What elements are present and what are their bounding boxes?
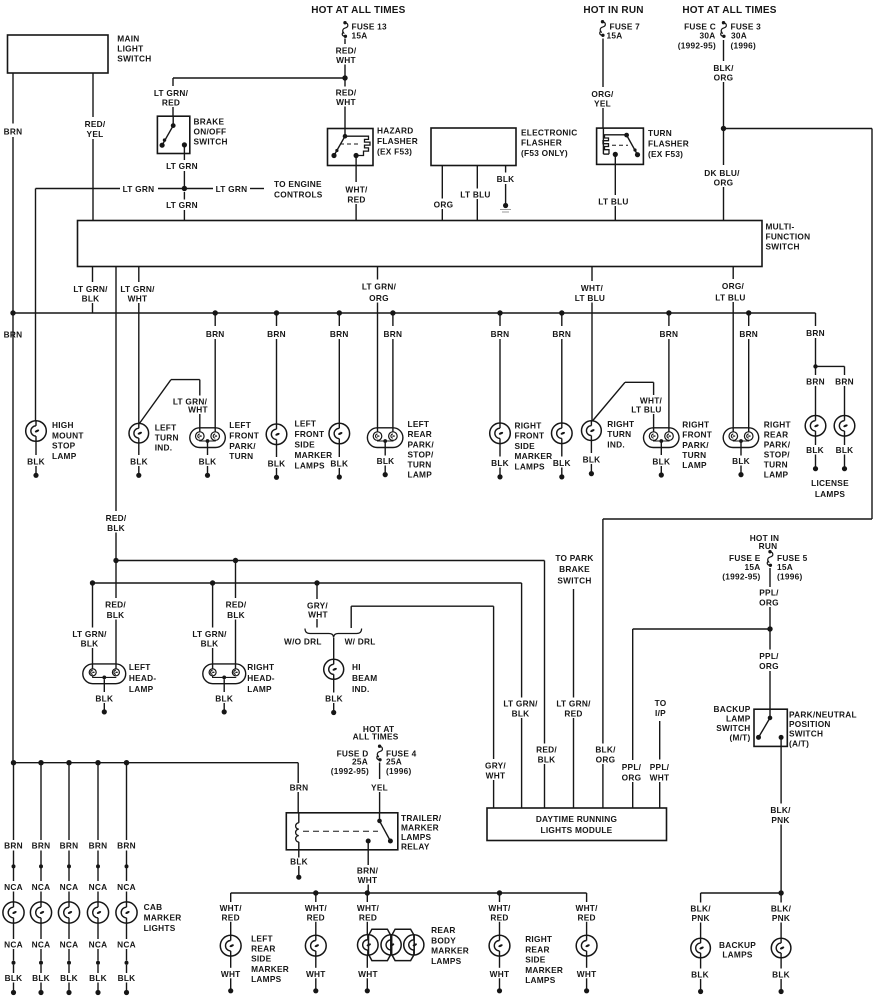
- svg-text:BRN: BRN: [89, 841, 108, 851]
- label rear body marker lamps: [431, 925, 469, 966]
- svg-text:LAMPS: LAMPS: [251, 974, 282, 984]
- daytime running lights module box: [487, 808, 667, 841]
- svg-text:15A: 15A: [777, 562, 793, 572]
- svg-text:BLK: BLK: [836, 445, 854, 455]
- svg-text:WHT/: WHT/: [305, 903, 328, 913]
- node BRN rail junction right front marker 2: [559, 310, 564, 315]
- connector splice cab marker lamp 4 bottom: [96, 961, 100, 965]
- wire BRN drop to left rear park/stop/turn lamp: [384, 313, 403, 432]
- turn flasher label: [648, 128, 689, 159]
- label TO ENGINE CONTROLS: [274, 179, 323, 200]
- svg-text:REAR: REAR: [431, 925, 456, 935]
- svg-text:LIGHT: LIGHT: [117, 44, 143, 54]
- node cab rail junction 3: [66, 760, 71, 765]
- ground left rear side marker lamp 1: [221, 956, 241, 993]
- svg-text:SIDE: SIDE: [515, 441, 536, 451]
- svg-text:15A: 15A: [352, 30, 368, 40]
- wire NCA cab marker lamp 5: [117, 868, 136, 902]
- svg-text:WHT/: WHT/: [345, 185, 368, 195]
- wire BRN drop cab marker lamp 1: [4, 763, 23, 865]
- cab marker lamp 3: [58, 902, 79, 923]
- wire NCA below cab marker lamp 1: [4, 923, 23, 961]
- svg-text:25A: 25A: [386, 757, 402, 767]
- label left headlamp: [129, 662, 157, 694]
- connector splice cab marker lamp 4 top: [96, 864, 100, 868]
- svg-text:WHT/: WHT/: [575, 903, 598, 913]
- wire BRN from main light switch: [4, 73, 23, 313]
- wire NCA cab marker lamp 3: [60, 868, 79, 902]
- svg-text:BRN: BRN: [4, 841, 23, 851]
- svg-text:CAB: CAB: [144, 902, 163, 912]
- svg-text:BLK/: BLK/: [713, 63, 734, 73]
- wire BRN drop to left front park/turn lamp: [206, 313, 225, 432]
- main light switch box: [8, 35, 109, 73]
- wire LT GRN to high mount stop lamp: [35, 189, 37, 421]
- svg-text:BLK: BLK: [199, 457, 217, 467]
- label left rear side marker lamps: [251, 933, 289, 984]
- connector splice cab marker lamp 2 top: [39, 864, 43, 868]
- svg-text:ON/OFF: ON/OFF: [194, 127, 227, 137]
- node BRN rail junction left front marker 2: [337, 310, 342, 315]
- wire LT GRN/WHT output: [119, 267, 156, 423]
- svg-text:25A: 25A: [352, 757, 368, 767]
- ground cab marker lamp 1: [5, 965, 23, 995]
- svg-text:BLK: BLK: [652, 457, 670, 467]
- svg-text:LT GRN/: LT GRN/: [362, 282, 397, 292]
- svg-text:15A: 15A: [607, 30, 623, 40]
- license lamp right: [834, 416, 855, 437]
- svg-text:LT BLU: LT BLU: [460, 190, 490, 200]
- svg-text:FRONT: FRONT: [515, 431, 545, 441]
- svg-text:WHT: WHT: [308, 610, 328, 620]
- svg-text:SWITCH: SWITCH: [557, 576, 591, 586]
- svg-text:BRN: BRN: [384, 329, 403, 339]
- svg-text:30A: 30A: [700, 30, 716, 40]
- right rear side marker lamp 1: [489, 935, 510, 956]
- ground backup left: [691, 958, 709, 994]
- wire BLK/PNK from switch: [770, 737, 792, 893]
- svg-text:ORG: ORG: [434, 200, 454, 210]
- electronic flasher box: [431, 128, 516, 166]
- svg-text:LAMP: LAMP: [247, 684, 272, 694]
- right front side marker lamp: [490, 423, 511, 444]
- svg-text:HIGH: HIGH: [52, 420, 74, 430]
- wire BRN drop cab marker lamp 4: [89, 763, 108, 865]
- svg-text:SWITCH: SWITCH: [789, 729, 823, 739]
- svg-text:BEAM: BEAM: [352, 673, 377, 683]
- svg-text:RED/: RED/: [226, 600, 247, 610]
- power source label HOT AT ALL TIMES (fuse C/3): [682, 5, 776, 16]
- svg-text:BLK: BLK: [107, 610, 125, 620]
- fuse F13 15A: [342, 21, 387, 40]
- svg-text:LAMP: LAMP: [682, 460, 707, 470]
- svg-text:WHT: WHT: [358, 969, 378, 979]
- wire NCA below cab marker lamp 4: [89, 923, 108, 961]
- svg-text:MOUNT: MOUNT: [52, 430, 84, 440]
- svg-text:RED/: RED/: [106, 513, 127, 523]
- cab marker lamp 2: [30, 902, 51, 923]
- svg-text:ORG/: ORG/: [591, 89, 614, 99]
- wire GRY/WHT to DRL module: [485, 606, 507, 808]
- svg-text:MARKER: MARKER: [431, 946, 469, 956]
- svg-text:MAIN: MAIN: [117, 34, 139, 44]
- brake switch label: [194, 117, 228, 147]
- wire BLK/ORG from fuse C: [713, 40, 735, 129]
- svg-text:LT BLU: LT BLU: [575, 293, 605, 303]
- svg-text:BRN: BRN: [330, 329, 349, 339]
- svg-text:BLK: BLK: [107, 523, 125, 533]
- svg-text:MULTI-: MULTI-: [766, 222, 795, 232]
- svg-text:LT GRN: LT GRN: [166, 161, 198, 171]
- svg-text:LAMP: LAMP: [764, 470, 789, 480]
- ground rear body markers: [358, 955, 378, 993]
- svg-text:BLK: BLK: [89, 973, 107, 983]
- svg-text:TO ENGINE: TO ENGINE: [274, 179, 322, 189]
- svg-text:BLK: BLK: [325, 694, 343, 704]
- fuse F7 15A: [600, 20, 640, 40]
- svg-text:SWITCH: SWITCH: [194, 137, 228, 147]
- svg-text:BRAKE: BRAKE: [559, 564, 590, 574]
- svg-text:BLK: BLK: [512, 709, 530, 719]
- svg-text:RUN: RUN: [759, 541, 778, 551]
- svg-text:MARKER: MARKER: [295, 450, 333, 460]
- connector splice cab marker lamp 3 bottom: [67, 961, 71, 965]
- svg-text:LT BLU: LT BLU: [598, 197, 628, 207]
- svg-text:PPL/: PPL/: [650, 762, 670, 772]
- svg-text:(1996): (1996): [731, 40, 756, 50]
- svg-text:BRN: BRN: [206, 329, 225, 339]
- fuse glyph D/4: [377, 745, 383, 762]
- wire WHT/LT BLU output: [574, 267, 606, 421]
- ground high mount stop lamp: [27, 441, 45, 478]
- svg-text:TURN: TURN: [682, 450, 706, 460]
- svg-text:BRN: BRN: [117, 841, 136, 851]
- svg-text:PARK/: PARK/: [764, 440, 791, 450]
- svg-text:(1996): (1996): [777, 572, 802, 582]
- wire BRN drop to right front side marker: [491, 313, 510, 423]
- label RED/BLK DRL input: [536, 745, 558, 809]
- trailer relay switch: [366, 813, 393, 844]
- svg-text:RED/: RED/: [105, 600, 126, 610]
- svg-text:LAMP: LAMP: [52, 451, 77, 461]
- label left turn ind: [155, 422, 179, 452]
- svg-text:REAR: REAR: [764, 430, 789, 440]
- svg-text:WHT/: WHT/: [581, 283, 604, 293]
- fuse FC 30A 1992-95 labels: [678, 22, 716, 51]
- power source label HOT IN RUN (fuse 7): [583, 5, 643, 16]
- svg-text:WHT/: WHT/: [488, 903, 511, 913]
- wire W/ DRL riser: [351, 606, 493, 628]
- svg-text:IND.: IND.: [607, 439, 625, 449]
- svg-text:BLK: BLK: [806, 445, 824, 455]
- fuse FD 25A 1992-95 labels: [331, 749, 369, 777]
- svg-text:HOT AT ALL TIMES: HOT AT ALL TIMES: [311, 5, 405, 16]
- label left rear lamp: [408, 419, 435, 479]
- right front marker lamp 2: [552, 423, 573, 444]
- node BRN rail junction right front side marker: [497, 310, 502, 315]
- wire BRN park lamp rail: [13, 312, 816, 314]
- wire LT GRN/BLK rail: [90, 580, 522, 697]
- wire PPL/ORG to DRL module: [621, 629, 771, 808]
- wire to hi beam indicator: [333, 638, 335, 659]
- svg-text:RIGHT: RIGHT: [515, 420, 542, 430]
- wire BLK/ORG down right side: [595, 519, 873, 808]
- svg-text:LT GRN/: LT GRN/: [120, 284, 155, 294]
- svg-text:PARK/NEUTRAL: PARK/NEUTRAL: [789, 709, 857, 719]
- svg-text:BLK: BLK: [772, 970, 790, 980]
- label LT GRN/BLK DRL input: [502, 699, 539, 809]
- wire PPL/ORG from fuse E: [758, 568, 780, 629]
- svg-text:REAR: REAR: [525, 944, 550, 954]
- svg-text:BLK: BLK: [691, 970, 709, 980]
- svg-text:(M/T): (M/T): [729, 733, 750, 743]
- svg-text:POSITION: POSITION: [789, 719, 831, 729]
- svg-text:HAZARD: HAZARD: [377, 126, 414, 136]
- wire LT GRN/BLK output: [72, 267, 109, 314]
- wire RED/BLK rail: [113, 558, 544, 744]
- wire BLK/ORG to right edge: [724, 128, 873, 130]
- connector splice cab marker lamp 1 bottom: [12, 961, 16, 965]
- svg-text:LIGHTS MODULE: LIGHTS MODULE: [541, 825, 613, 835]
- svg-text:BLK: BLK: [268, 459, 286, 469]
- node BRN rail junction right rear park/stop/turn lamp: [746, 310, 751, 315]
- svg-text:W/O DRL: W/O DRL: [284, 637, 322, 647]
- high mount stop lamp: [26, 421, 47, 442]
- svg-text:SIDE: SIDE: [525, 955, 546, 965]
- wire LT BLU from turn flasher: [598, 154, 630, 220]
- license lamp left: [805, 416, 826, 437]
- label left front side marker lamps: [295, 419, 333, 471]
- svg-text:BLK: BLK: [201, 639, 219, 649]
- svg-text:BRN: BRN: [4, 127, 23, 137]
- svg-text:HOT IN RUN: HOT IN RUN: [583, 5, 643, 16]
- right front park/turn lamp: [644, 428, 680, 448]
- wire RED/WHT from fuse 13: [335, 39, 357, 79]
- label backup lamps: [719, 940, 756, 960]
- svg-text:PPL/: PPL/: [759, 588, 779, 598]
- label park/neutral position switch: [789, 709, 857, 748]
- svg-text:BRN: BRN: [290, 783, 309, 793]
- svg-text:NCA: NCA: [32, 882, 51, 892]
- svg-text:BLK: BLK: [583, 455, 601, 465]
- svg-text:BRN: BRN: [32, 841, 51, 851]
- svg-text:BRN: BRN: [491, 329, 510, 339]
- svg-text:BLK: BLK: [538, 755, 556, 765]
- ground right rear side marker lamp 2: [577, 956, 597, 993]
- svg-text:BLK: BLK: [215, 694, 233, 704]
- cab marker lamp 4: [87, 902, 108, 923]
- svg-text:(EX F53): (EX F53): [377, 147, 412, 157]
- svg-text:LIGHTS: LIGHTS: [144, 923, 176, 933]
- svg-text:WHT: WHT: [486, 771, 506, 781]
- svg-text:LAMPS: LAMPS: [515, 462, 546, 472]
- wire RED/BLK output (headlamp feed): [105, 267, 127, 561]
- svg-text:LT GRN: LT GRN: [216, 184, 248, 194]
- svg-text:LAMPS: LAMPS: [722, 950, 753, 960]
- right headlamp: [203, 664, 246, 684]
- svg-text:ORG: ORG: [714, 178, 734, 188]
- svg-text:WHT: WHT: [358, 875, 378, 885]
- svg-text:LT GRN/: LT GRN/: [192, 629, 227, 639]
- wire BRN/WHT from relay: [357, 841, 379, 893]
- wire RED/BLK to right headlamp: [225, 561, 247, 669]
- wire LT GRN/ORG output: [361, 267, 398, 432]
- svg-text:LT GRN/: LT GRN/: [73, 284, 108, 294]
- wire LT GRN horizontal: [36, 184, 265, 194]
- svg-text:BLK: BLK: [60, 973, 78, 983]
- svg-text:(1992-95): (1992-95): [331, 766, 369, 776]
- svg-text:NCA: NCA: [60, 882, 79, 892]
- svg-text:LT GRN/: LT GRN/: [556, 699, 591, 709]
- svg-text:MARKER: MARKER: [525, 965, 563, 975]
- svg-text:DK BLU/: DK BLU/: [704, 168, 740, 178]
- fuse glyph E/5: [767, 550, 773, 567]
- wire LT GRN below brake switch: [166, 145, 198, 189]
- ground right rear side marker lamp 1: [490, 956, 510, 993]
- svg-text:RED/: RED/: [85, 119, 106, 129]
- label high mount stop lamp: [52, 420, 84, 461]
- ground right front side marker: [491, 444, 509, 480]
- svg-text:NCA: NCA: [89, 882, 108, 892]
- svg-text:ORG: ORG: [759, 598, 779, 608]
- ground right front marker 2: [553, 444, 571, 480]
- wire RED/WHT to hazard flasher: [335, 78, 357, 129]
- power source label HOT AT ALL TIMES (fuse 13): [311, 5, 405, 16]
- label right rear side marker lamps: [525, 934, 563, 985]
- label cab marker lights: [144, 902, 182, 933]
- svg-text:RED: RED: [564, 709, 582, 719]
- wire BRN drop to right front marker 2: [552, 313, 571, 423]
- svg-text:BRN: BRN: [739, 329, 758, 339]
- svg-text:BRN: BRN: [60, 841, 79, 851]
- ground cab marker lamp 2: [32, 965, 50, 995]
- node BRN rail junction left front side marker: [274, 310, 279, 315]
- wire PPL/ORG to backup switch: [769, 629, 771, 650]
- wire WHT/RED to left rear side marker lamp 2: [305, 893, 328, 935]
- svg-text:STOP: STOP: [52, 441, 76, 451]
- svg-text:NCA: NCA: [60, 939, 79, 949]
- svg-text:BRN/: BRN/: [357, 866, 379, 876]
- svg-text:RED: RED: [359, 912, 377, 922]
- svg-text:RED: RED: [577, 912, 595, 922]
- svg-text:SIDE: SIDE: [251, 954, 272, 964]
- svg-text:HI: HI: [352, 662, 361, 672]
- node cab rail junction 5: [124, 760, 129, 765]
- svg-text:DAYTIME RUNNING: DAYTIME RUNNING: [536, 814, 617, 824]
- svg-text:I/P: I/P: [655, 708, 666, 718]
- power source label HOT IN RUN (fuse E/5): [750, 533, 780, 551]
- svg-text:NCA: NCA: [89, 939, 108, 949]
- ground left headlamp: [95, 679, 113, 714]
- wire YEL from fuse D: [371, 763, 388, 813]
- hazard flasher label: [377, 126, 418, 157]
- svg-text:BLK: BLK: [553, 458, 571, 468]
- ground right front park/turn: [652, 442, 670, 477]
- wire LT GRN into multifunction switch: [166, 192, 198, 221]
- wire DK BLU/ORG to multifunction switch: [704, 129, 741, 221]
- ground right turn ind: [583, 441, 601, 477]
- power source label HOT AT ALL TIMES (fuse D/4): [353, 724, 399, 742]
- left headlamp: [83, 664, 126, 684]
- wire NCA cab marker lamp 2: [32, 868, 51, 902]
- svg-text:SWITCH: SWITCH: [716, 723, 750, 733]
- label trailer relay: [401, 813, 442, 852]
- ground cab marker lamp 4: [89, 965, 107, 995]
- label PPL/ORG 2: [758, 651, 780, 671]
- wire NCA cab marker lamp 1: [4, 868, 23, 902]
- svg-text:BLK: BLK: [81, 639, 99, 649]
- svg-text:PARK/: PARK/: [229, 441, 256, 451]
- svg-text:RED: RED: [347, 195, 365, 205]
- node LT GRN junction: [182, 186, 187, 191]
- node BLK/ORG branch: [721, 126, 726, 131]
- svg-text:PPL/: PPL/: [759, 651, 779, 661]
- brake switch contacts: [160, 116, 187, 148]
- svg-text:MARKER: MARKER: [401, 822, 439, 832]
- cab marker lamp 5: [116, 902, 137, 923]
- trailer/marker lamps relay box: [286, 813, 398, 850]
- svg-text:SWITCH: SWITCH: [117, 54, 151, 64]
- label TO I/P: [655, 698, 667, 718]
- svg-text:YEL: YEL: [87, 129, 104, 139]
- svg-text:HOT AT ALL TIMES: HOT AT ALL TIMES: [682, 5, 776, 16]
- connector splice cab marker lamp 1 top: [12, 864, 16, 868]
- svg-text:LICENSE: LICENSE: [811, 478, 849, 488]
- svg-text:BODY: BODY: [431, 935, 456, 945]
- ground cab marker lamp 5: [118, 965, 136, 995]
- label BRN below rail left: [4, 330, 23, 340]
- ground electronic flasher: [500, 203, 511, 212]
- svg-text:TURN: TURN: [648, 128, 672, 138]
- svg-text:TURN: TURN: [229, 451, 253, 461]
- svg-text:15A: 15A: [745, 562, 761, 572]
- wire BRN drop to left front side marker: [267, 313, 286, 424]
- svg-text:RED: RED: [162, 98, 180, 108]
- right rear side marker lamp 2: [576, 935, 597, 956]
- svg-text:LAMPS: LAMPS: [525, 975, 556, 985]
- svg-text:(F53 ONLY): (F53 ONLY): [521, 148, 568, 158]
- svg-text:HEAD-: HEAD-: [129, 673, 157, 683]
- ground trailer relay coil: [290, 850, 308, 880]
- multi-function switch box: [78, 221, 763, 267]
- node cab rail junction 4: [95, 760, 100, 765]
- connector splice cab marker lamp 5 bottom: [125, 961, 129, 965]
- wire BLK/PNK to backup lamp right: [770, 893, 792, 938]
- wire WHT/RED to left rear side marker lamp 1: [220, 893, 243, 935]
- ground right headlamp: [215, 679, 233, 714]
- wire ORG from electronic flasher: [434, 166, 454, 221]
- svg-text:YEL: YEL: [371, 783, 388, 793]
- ground left rear side marker lamp 2: [306, 956, 326, 993]
- svg-text:BLK: BLK: [5, 973, 23, 983]
- svg-text:LEFT: LEFT: [251, 933, 273, 943]
- svg-text:RED: RED: [222, 912, 240, 922]
- wire BRN to license lamps: [806, 313, 825, 366]
- hazard flasher box: [328, 129, 374, 166]
- ground left front side marker: [268, 445, 286, 480]
- svg-text:TURN: TURN: [607, 429, 631, 439]
- trailer relay dashed link: [303, 830, 378, 832]
- svg-text:RED/: RED/: [536, 745, 557, 755]
- svg-text:BLK: BLK: [227, 610, 245, 620]
- svg-text:LT GRN: LT GRN: [123, 184, 155, 194]
- svg-text:BLK: BLK: [377, 456, 395, 466]
- svg-text:BRN: BRN: [552, 329, 571, 339]
- hi beam indicator lamp: [324, 659, 344, 679]
- wire BRN rail to cab markers: [11, 760, 298, 765]
- node BRN rail junction left rear park/stop/turn lamp: [390, 310, 395, 315]
- label license lamps: [811, 478, 849, 499]
